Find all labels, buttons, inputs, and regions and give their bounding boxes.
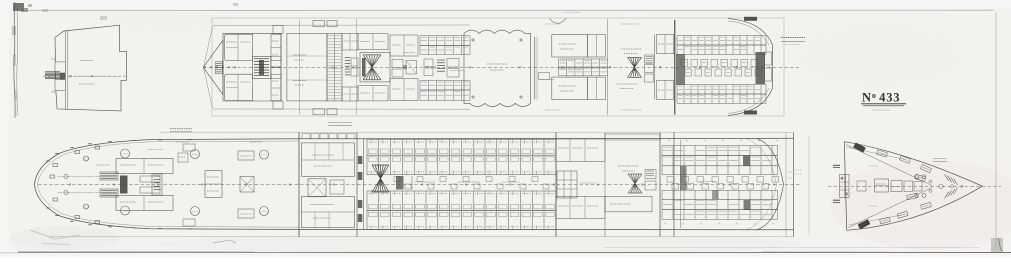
svg-text:No433: No433	[862, 91, 900, 105]
